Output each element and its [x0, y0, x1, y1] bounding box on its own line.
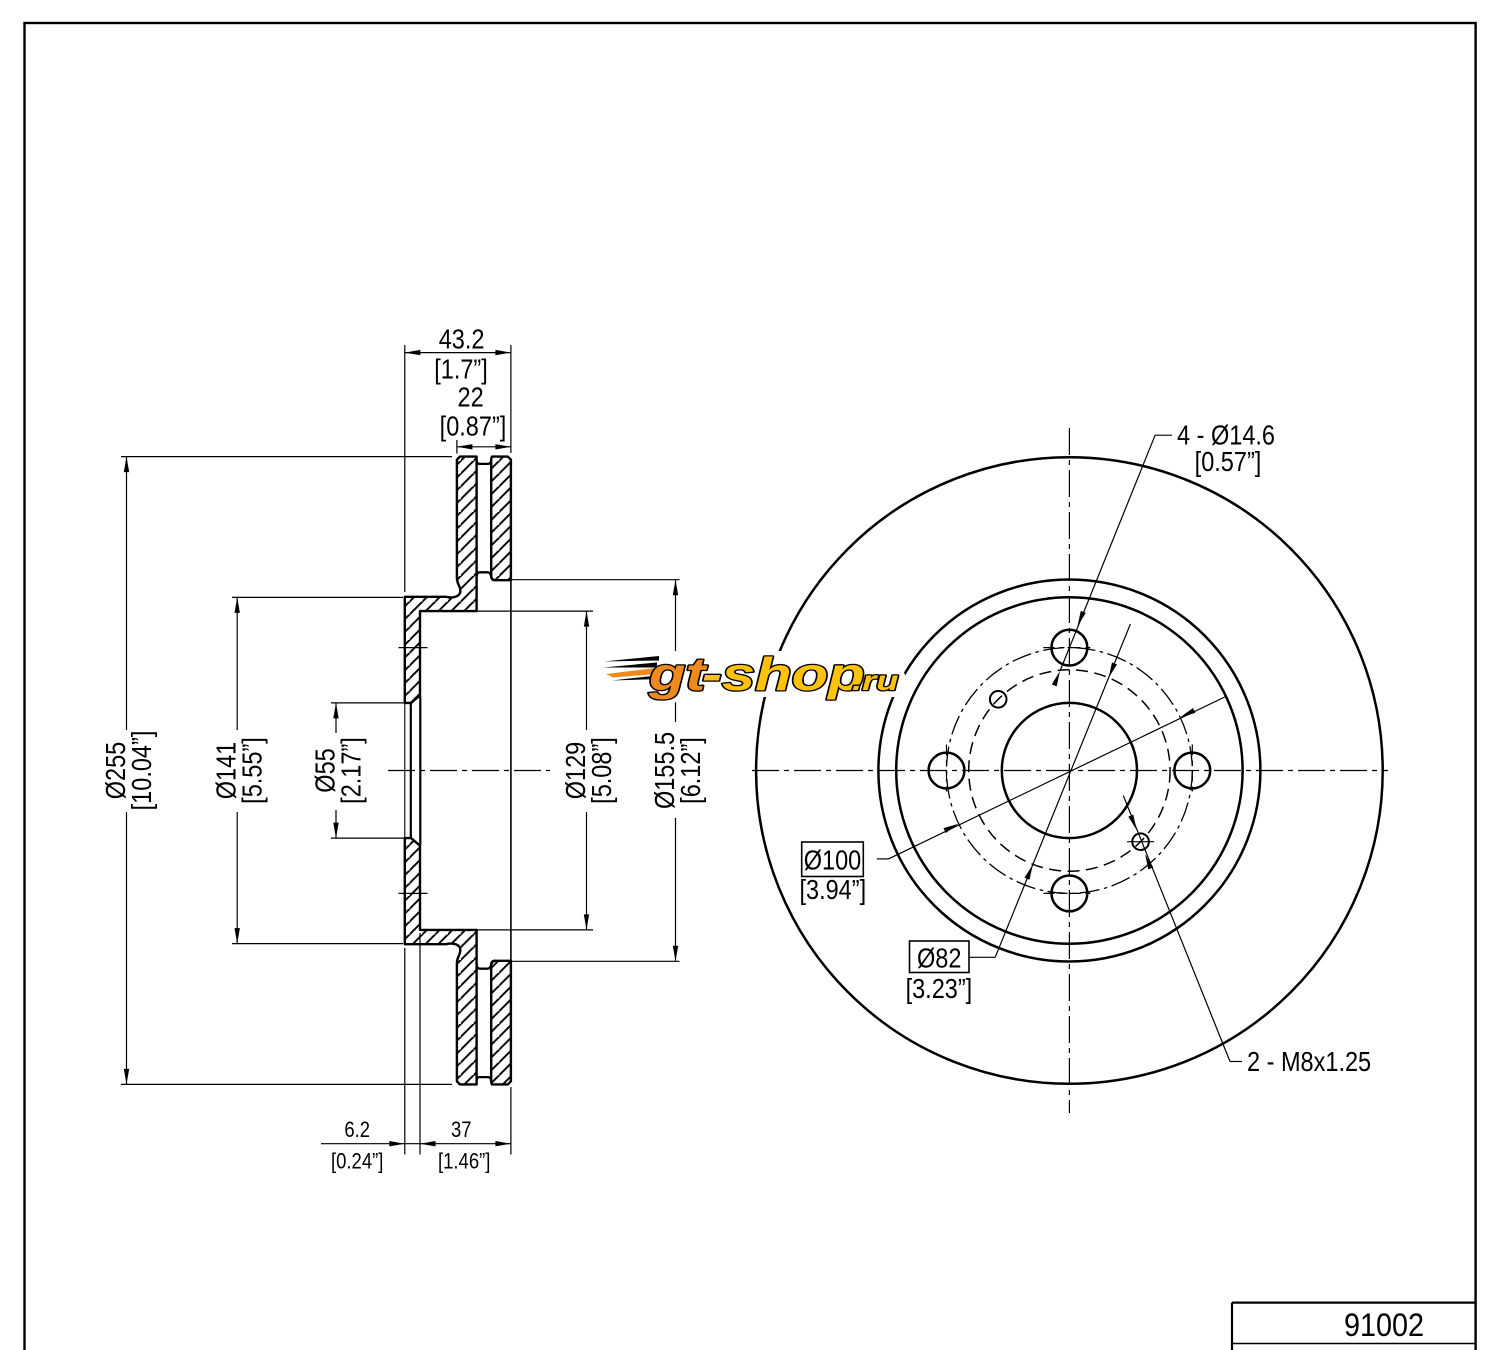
bolt circle &#216;100 (dash-dot): [947, 648, 1193, 894]
svg-text:[0.87”]: [0.87”]: [440, 411, 507, 441]
svg-text:[10.04”]: [10.04”]: [127, 731, 157, 811]
four stud holes &#216;14.6: [1052, 630, 1088, 666]
stud hole centre ticks: [399, 647, 428, 649]
svg-text:[0.57”]: [0.57”]: [1195, 447, 1262, 477]
svg-text:gt: gt: [648, 649, 708, 700]
svg-text:[1.7”]: [1.7”]: [434, 355, 488, 385]
svg-text:Ø100: Ø100: [804, 846, 862, 876]
disc outer right face (silhouette through hat opening): [510, 581, 512, 961]
dimension &#216;55 [2.17"]: [331, 702, 404, 704]
leader 2 - M8x1.25: [1230, 1061, 1242, 1063]
dimensions 6.2 [0.24"] and 37 [1.46"]: [404, 948, 406, 1155]
svg-text:91002: 91002: [1344, 1308, 1424, 1344]
two M8 holes on &#216;82: [990, 691, 1007, 708]
svg-text:37: 37: [451, 1119, 472, 1143]
svg-text:22: 22: [458, 383, 484, 413]
dimension &#216;141 [5.55"]: [232, 596, 403, 598]
stud hole centre ticks: [1043, 647, 1095, 649]
title block: [1232, 1301, 1476, 1303]
hat outer circle &#216;155.5: [878, 580, 1260, 962]
centre bore circle &#216;55: [1002, 703, 1137, 838]
leader 4 - &#216;14.6 [0.57"]: [1155, 434, 1172, 436]
svg-text:[3.23”]: [3.23”]: [906, 974, 973, 1004]
svg-text:43.2: 43.2: [439, 325, 485, 355]
svg-text:[5.55”]: [5.55”]: [238, 737, 268, 804]
dimension &#216;129 [5.08"]: [477, 610, 593, 612]
dimension &#216;155.5 [6.12"]: [511, 579, 680, 581]
leader &#216;100 [3.94"] with boxed label: [802, 842, 864, 877]
dimension 43.2 [1.7"]: [404, 345, 406, 592]
dimension 22 [0.87"]: [456, 440, 458, 454]
front view crosshair centrelines: [1068, 428, 1070, 1113]
svg-text:[2.17”]: [2.17”]: [337, 737, 367, 804]
circle &#216;82 (dashed): [969, 670, 1170, 871]
brake disc cross-section: upper half (hatched): [405, 457, 477, 703]
svg-text:[5.08”]: [5.08”]: [587, 737, 617, 804]
svg-text:[6.12”]: [6.12”]: [676, 737, 706, 804]
brake disc cross-section: lower half (mirror): [405, 838, 477, 1084]
flange circle &#216;141: [896, 597, 1242, 943]
gt-shop.ru watermark logo: [601, 649, 899, 700]
svg-text:[0.24”]: [0.24”]: [331, 1150, 383, 1174]
svg-text:-shop: -shop: [702, 649, 865, 700]
dimension &#216;255 [10.04"]: [121, 456, 452, 458]
svg-text:6.2: 6.2: [344, 1119, 370, 1143]
svg-text:[3.94”]: [3.94”]: [799, 875, 866, 905]
bore silhouette lines and chamfers: [410, 703, 412, 838]
svg-text:.ru: .ru: [852, 665, 899, 696]
disc outer circle &#216;255: [756, 457, 1383, 1084]
svg-text:2 - M8x1.25: 2 - M8x1.25: [1247, 1047, 1371, 1077]
svg-text:[1.46”]: [1.46”]: [438, 1150, 490, 1174]
svg-text:Ø82: Ø82: [917, 944, 961, 974]
axis centreline of section view: [388, 770, 550, 772]
leader &#216;82 [3.23"] with boxed label: [910, 941, 970, 973]
